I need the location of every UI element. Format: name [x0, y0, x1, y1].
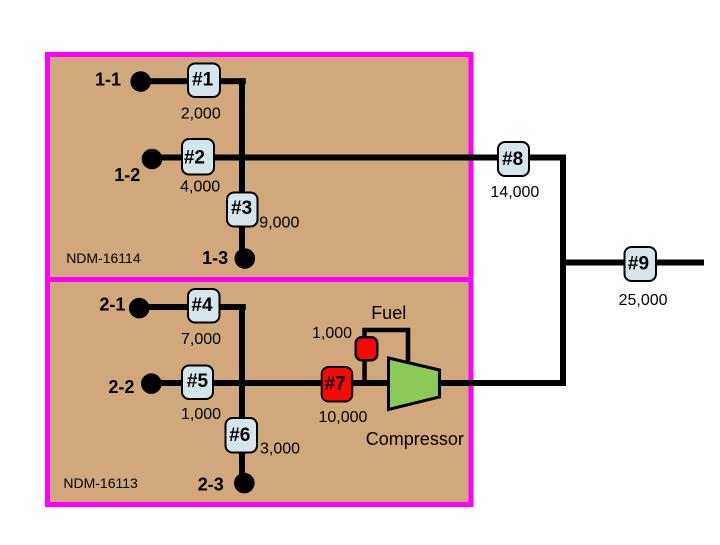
- svg-text:7,000: 7,000: [181, 331, 221, 348]
- svg-text:2-2: 2-2: [108, 377, 134, 397]
- svg-text:9,000: 9,000: [259, 215, 299, 232]
- wire: group-1 vertical gathering line (#1 down to well 1-3): [239, 78, 245, 258]
- node #1: [188, 64, 220, 98]
- node #3: [227, 193, 258, 227]
- svg-text:2,000: 2,000: [181, 105, 221, 122]
- node #5: [182, 366, 213, 400]
- svg-text:#7: #7: [325, 373, 346, 394]
- wire: well 2-2 through #5 and #7 to compressor and trunk: [151, 380, 566, 386]
- node #2: [182, 139, 214, 175]
- svg-text:#9: #9: [628, 254, 649, 275]
- NDM-16113 field boundary (magenta box 2): [48, 280, 472, 505]
- node #6: [226, 418, 258, 453]
- svg-text:1,000: 1,000: [312, 325, 352, 342]
- svg-text:#4: #4: [191, 295, 213, 316]
- fuel valve (red square): [356, 337, 378, 360]
- svg-text:2-3: 2-3: [198, 474, 224, 494]
- svg-text:NDM-16114: NDM-16114: [66, 250, 141, 266]
- svg-text:Compressor: Compressor: [366, 429, 464, 449]
- svg-text:1-2: 1-2: [114, 165, 140, 185]
- svg-text:4,000: 4,000: [180, 178, 220, 195]
- well 1-3 dot: [235, 248, 256, 269]
- node #4: [188, 289, 220, 323]
- well 1-1 dot: [130, 71, 151, 92]
- svg-text:3,000: 3,000: [260, 441, 300, 458]
- svg-text:#2: #2: [184, 147, 205, 168]
- wire: fuel valve bottom stub: [362, 350, 367, 385]
- wire: well 1-2 through node #2 to node #8: [152, 155, 566, 161]
- svg-text:1,000: 1,000: [181, 406, 221, 423]
- well 1-2 dot: [142, 149, 163, 170]
- node #9: [625, 247, 657, 281]
- node #8: [498, 142, 529, 176]
- svg-text:1-3: 1-3: [202, 248, 228, 268]
- NDM-16114 field boundary (magenta box 1): [48, 55, 472, 280]
- svg-text:#1: #1: [192, 70, 214, 91]
- compressor symbol: [389, 358, 440, 410]
- svg-text:1-1: 1-1: [95, 70, 121, 90]
- well 2-2 dot: [141, 373, 162, 394]
- wire: fuel loop from valve top to compressor top: [365, 330, 409, 366]
- svg-text:#8: #8: [502, 149, 523, 170]
- wire: group-2 vertical gathering line (#4 down to well 2-3): [239, 304, 245, 484]
- svg-text:#6: #6: [229, 425, 250, 446]
- svg-text:25,000: 25,000: [619, 292, 668, 309]
- wire: right vertical trunk (#8 corner down to compressor outlet): [560, 155, 566, 387]
- well 2-1 dot: [129, 298, 150, 319]
- wire: well 1-1 to gathering line: [140, 78, 246, 84]
- svg-text:#5: #5: [187, 371, 209, 392]
- svg-text:14,000: 14,000: [490, 184, 539, 201]
- well 2-3 dot: [234, 473, 255, 494]
- svg-text:#3: #3: [231, 198, 252, 219]
- svg-text:NDM-16113: NDM-16113: [63, 475, 138, 491]
- svg-text:Fuel: Fuel: [371, 303, 406, 323]
- svg-text:10,000: 10,000: [319, 409, 368, 426]
- node #7 (compressor suction, red): [322, 367, 353, 402]
- wire: #9 sales line: [560, 260, 704, 266]
- wire: well 2-1 to gathering line: [139, 304, 246, 310]
- svg-text:2-1: 2-1: [99, 294, 125, 314]
